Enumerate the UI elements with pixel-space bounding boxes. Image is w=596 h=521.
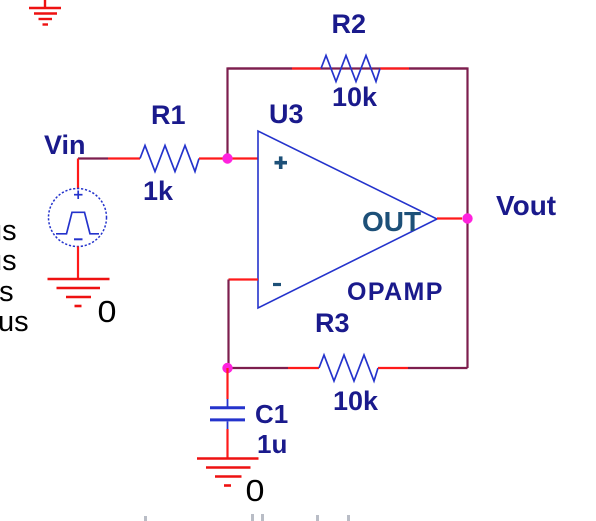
wire C1 to ground red [226,429,228,458]
ground left [48,279,110,306]
source pulse waveform [56,212,99,234]
pin opamp out red [437,217,462,219]
capacitor C1 [210,399,245,429]
top-left artifact ground [29,0,61,25]
wire opamp minus pin red [229,278,259,280]
source plus mark [74,191,83,200]
pin R2 left red [292,67,321,69]
pin R3 left red [288,367,319,369]
svg-text:us: us [0,306,29,338]
svg-text:Vout: Vout [496,190,556,221]
svg-text:Vin: Vin [44,130,86,160]
svg-text:C1: C1 [255,399,288,429]
wire bottom node to R3 maroon [229,367,289,369]
svg-text:U3: U3 [269,99,304,129]
wire source to ground red [77,247,79,280]
node junction at R1/opamp [222,153,232,163]
node junction at output [462,213,472,223]
label 0 left ground [98,294,117,328]
svg-text:us: us [0,245,17,277]
opamp minus input mark [273,283,281,286]
opamp plus input mark [275,156,288,169]
svg-text:0: 0 [246,473,265,507]
wire top rail [228,69,468,215]
wire R3 right maroon [408,367,468,369]
svg-text:R1: R1 [151,100,186,130]
svg-text:OPAMP: OPAMP [347,278,444,306]
svg-text:us: us [0,215,17,247]
node junction at C1 [222,363,232,373]
pin R1 right red + opamp + pin [199,157,258,159]
op-amp U3 triangle [258,131,437,308]
resistor R1 body [140,146,199,172]
wire R2 left maroon [228,67,293,69]
pin R2 right red [380,67,409,69]
wire right rail lower [466,214,468,368]
faint caption tops at bottom edge [144,514,350,521]
resistor R3 body [319,355,378,381]
wire R2 right maroon [409,67,468,69]
svg-text:0: 0 [98,294,117,328]
pin R1 left red [108,157,140,159]
svg-text:1k: 1k [143,176,174,206]
source V1 circle [49,189,107,247]
svg-text:R2: R2 [332,9,367,39]
svg-text:10k: 10k [332,82,378,112]
wire minus input down maroon [227,280,229,369]
source minus mark [74,238,83,240]
svg-text:us: us [0,276,14,308]
wire Vin vertical red [77,159,79,190]
label 0 bottom ground [246,473,265,507]
wire node to C1 red [226,368,228,399]
svg-text:1u: 1u [257,429,287,459]
svg-text:R3: R3 [315,308,350,338]
resistor R2 body [321,56,380,82]
pin R3 right red [378,367,408,369]
wire Vin maroon [78,157,108,159]
svg-text:10k: 10k [333,386,379,416]
svg-text:OUT: OUT [362,206,421,237]
ground bottom [197,459,259,486]
